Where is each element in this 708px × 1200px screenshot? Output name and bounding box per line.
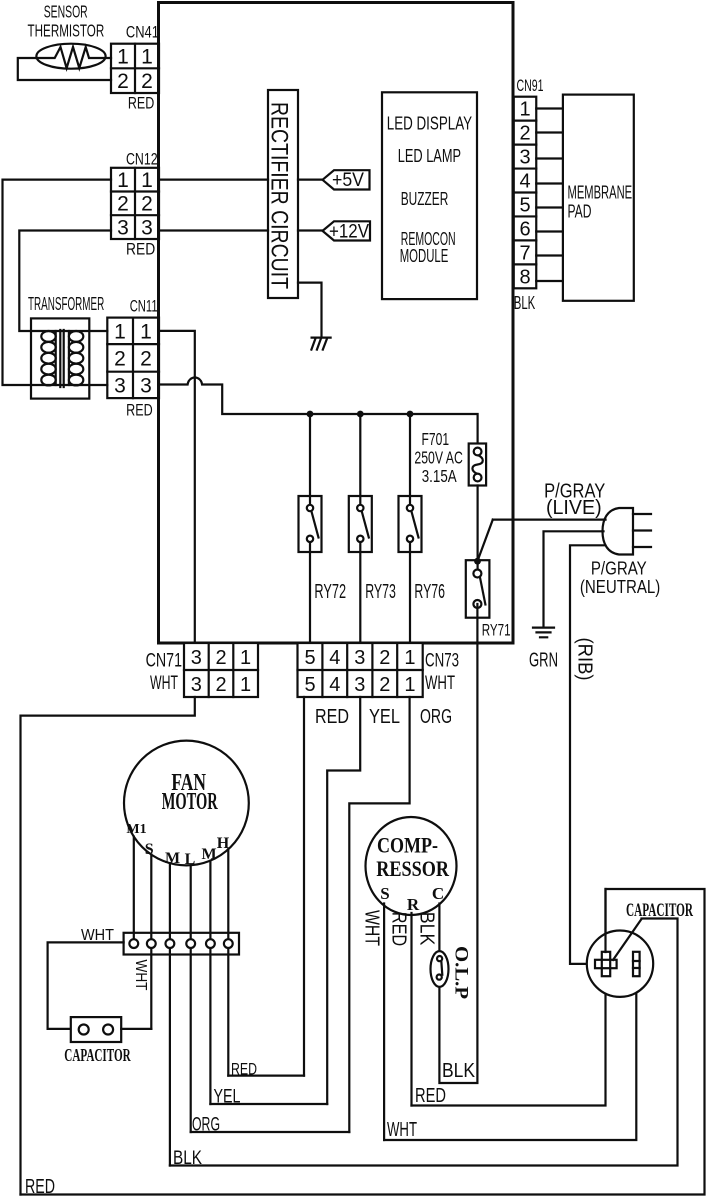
fan terminal labels M1 S M L M H <box>126 822 229 868</box>
svg-text:(NEUTRAL): (NEUTRAL) <box>580 577 660 597</box>
svg-text:WHT: WHT <box>361 910 383 946</box>
svg-text:1: 1 <box>141 46 153 69</box>
svg-text:CN41: CN41 <box>126 24 159 42</box>
svg-text:LED DISPLAY: LED DISPLAY <box>387 114 473 135</box>
svg-text:3: 3 <box>114 374 126 397</box>
svg-text:COMP-: COMP- <box>377 832 438 857</box>
svg-text:GRN: GRN <box>529 649 558 671</box>
svg-text:3: 3 <box>354 674 365 696</box>
wire rectifier to +5V flag <box>298 179 323 181</box>
earth ground symbol GRN <box>533 628 554 638</box>
svg-text:7: 7 <box>519 242 530 264</box>
svg-text:1: 1 <box>404 674 415 696</box>
connector CN11 <box>107 318 159 399</box>
svg-text:+5V: +5V <box>332 170 364 191</box>
svg-text:RED: RED <box>25 1176 55 1198</box>
svg-text:WHT: WHT <box>387 1119 417 1141</box>
svg-text:WHT: WHT <box>81 927 114 944</box>
wire YEL line <box>210 1103 327 1105</box>
svg-text:BLK: BLK <box>514 293 536 313</box>
relay RY76 <box>399 414 422 643</box>
CN73 pin numbers <box>304 647 415 696</box>
svg-text:CN91: CN91 <box>517 76 544 95</box>
svg-text:CN11: CN11 <box>130 298 158 316</box>
membrane pad block <box>563 95 634 301</box>
svg-text:MODULE: MODULE <box>400 246 449 267</box>
compressor terminal labels S R C <box>380 884 444 914</box>
wire CN71 pin3 down left side to bottom <box>21 697 195 1195</box>
wire CN73 pin1 down jog <box>349 697 409 1132</box>
wires CN91 to membrane pad <box>536 109 563 282</box>
svg-text:5: 5 <box>519 194 530 216</box>
fan motor lead wires <box>134 837 229 1166</box>
svg-text:2: 2 <box>141 193 153 216</box>
svg-text:2: 2 <box>117 70 129 93</box>
svg-text:RY76: RY76 <box>414 581 445 603</box>
wire plug third pin to capacitor (RIB) <box>570 545 605 964</box>
svg-text:YEL: YEL <box>214 1087 241 1108</box>
svg-text:3: 3 <box>354 647 365 669</box>
node +5V output flag <box>323 170 370 189</box>
svg-text:3: 3 <box>117 217 129 240</box>
junction dot RY73 tap <box>357 411 364 418</box>
wire compressor R to run capacitor (RED) <box>412 976 606 1106</box>
svg-text:RED: RED <box>126 240 155 258</box>
svg-text:1: 1 <box>140 320 152 343</box>
svg-text:4: 4 <box>329 647 340 669</box>
wire CN12 pin1 to rectifier <box>159 179 268 181</box>
svg-text:CN73: CN73 <box>425 650 459 671</box>
svg-text:RED: RED <box>126 401 153 419</box>
svg-text:RED: RED <box>128 95 154 113</box>
wire CN73 pin3 down jog <box>327 697 360 1104</box>
svg-text:YEL: YEL <box>369 706 400 728</box>
svg-text:2: 2 <box>117 193 129 216</box>
svg-text:1: 1 <box>117 169 129 192</box>
svg-text:(LIVE): (LIVE) <box>546 497 602 519</box>
fuse F701 <box>469 444 486 486</box>
svg-text:6: 6 <box>519 218 530 240</box>
transformer primary winding <box>41 331 55 385</box>
svg-text:SENSOR: SENSOR <box>44 2 88 22</box>
capacitor diagonal pointer <box>613 919 642 960</box>
svg-text:F701: F701 <box>422 429 450 449</box>
svg-text:RESSOR: RESSOR <box>376 856 450 881</box>
strip terminal circles <box>129 939 232 948</box>
wire plug live <box>493 518 606 520</box>
CN71 pin numbers <box>191 647 251 696</box>
power plug body <box>603 508 634 555</box>
wire compressor S <box>383 904 385 1141</box>
svg-text:3: 3 <box>141 217 153 240</box>
svg-text:BLK: BLK <box>173 1148 202 1169</box>
thermistor zigzag element <box>36 47 111 68</box>
CN12 pin numbers <box>117 169 153 240</box>
svg-text:2: 2 <box>140 347 152 370</box>
svg-text:P/GRAY: P/GRAY <box>591 558 647 578</box>
connector CN41 <box>111 44 159 93</box>
label F701 250V AC 3.15A <box>414 429 462 486</box>
transformer secondary winding <box>69 331 83 385</box>
wire fuse to RY71 <box>477 486 479 574</box>
wire CN12 pin3 to transformer top winding <box>19 231 111 332</box>
wire rectifier to signal ground <box>298 283 322 337</box>
svg-text:2: 2 <box>379 674 390 696</box>
main control box <box>159 3 514 644</box>
plug prongs <box>633 514 651 547</box>
svg-text:PAD: PAD <box>568 201 592 222</box>
svg-text:S: S <box>380 884 389 903</box>
signal ground symbol <box>311 338 330 350</box>
svg-text:RY72: RY72 <box>314 581 346 603</box>
capacitor C2 cross terminal <box>595 952 617 976</box>
CN11 pin numbers <box>114 320 152 397</box>
svg-text:2: 2 <box>215 674 226 696</box>
svg-text:RY73: RY73 <box>365 581 396 603</box>
relay RY72 <box>299 414 322 643</box>
svg-text:1: 1 <box>404 647 415 669</box>
svg-text:1: 1 <box>141 169 153 192</box>
fan terminal strip <box>124 933 239 955</box>
wire strip to left capacitor <box>48 942 124 1029</box>
transformer T1 box <box>31 318 89 398</box>
label SENSOR THERMISTOR <box>28 2 105 41</box>
svg-text:M: M <box>165 850 180 867</box>
svg-text:2: 2 <box>141 70 153 93</box>
svg-text:WHT: WHT <box>425 673 455 694</box>
wire bottom RED line to right riser <box>21 889 705 1195</box>
svg-text:TRANSFORMER: TRANSFORMER <box>28 294 104 314</box>
label P/GRAY (LIVE) <box>544 481 605 519</box>
svg-text:2: 2 <box>519 123 530 145</box>
junction dot RY72 tap <box>307 411 314 418</box>
svg-text:CN71: CN71 <box>146 650 182 671</box>
capacitor C1 (fan) <box>71 1017 121 1042</box>
rectifier circuit block U2 <box>268 90 298 298</box>
label COMPRESSOR <box>376 832 450 881</box>
label FAN MOTOR <box>162 770 218 815</box>
wire CN11 pin3 to AC bus with hop over vertical wire <box>159 378 478 444</box>
svg-text:3: 3 <box>191 674 202 696</box>
svg-text:RED: RED <box>231 1060 257 1079</box>
svg-text:ORG: ORG <box>192 1115 220 1136</box>
svg-text:MOTOR: MOTOR <box>162 789 218 815</box>
wire live diagonal from plug to RY71 <box>477 520 492 562</box>
svg-text:C: C <box>432 884 444 903</box>
wire plug neutral to earth <box>544 531 604 626</box>
compressor motor body <box>366 817 457 915</box>
capacitor C2 right terminal <box>633 952 640 976</box>
wire compressor S to run capacitor (WHT) <box>384 977 636 1140</box>
svg-text:250V AC: 250V AC <box>414 447 462 467</box>
wire rectifier to +12V flag <box>298 229 323 231</box>
svg-text:4: 4 <box>329 674 340 696</box>
svg-text:5: 5 <box>304 674 315 696</box>
connector CN73 <box>298 643 423 697</box>
svg-text:ORG: ORG <box>420 706 452 728</box>
svg-text:BLK: BLK <box>416 912 438 946</box>
display module block U3 <box>382 92 477 299</box>
svg-text:2: 2 <box>379 647 390 669</box>
node +12V output flag <box>323 221 371 240</box>
relay RY73 <box>349 414 372 643</box>
svg-text:M1: M1 <box>126 822 146 837</box>
svg-text:BLK: BLK <box>442 1060 476 1082</box>
transformer core <box>60 330 63 387</box>
svg-text:WHT: WHT <box>150 673 178 694</box>
svg-text:8: 8 <box>519 266 530 288</box>
svg-text:CN12: CN12 <box>126 151 158 169</box>
svg-text:1: 1 <box>117 46 129 69</box>
svg-text:RED: RED <box>388 912 410 946</box>
connector CN91 <box>514 97 537 289</box>
label MEMBRANE PAD <box>568 182 633 222</box>
svg-text:MEMBRANE: MEMBRANE <box>568 182 633 203</box>
wire compressor C to O.L.P <box>438 904 440 952</box>
svg-text:(RIB): (RIB) <box>574 638 596 681</box>
svg-text:RECTIFIER CIRCUIT: RECTIFIER CIRCUIT <box>266 102 293 289</box>
overload protector O.L.P <box>431 951 449 987</box>
svg-text:RED: RED <box>415 1085 446 1107</box>
wire CN12 pin1 to transformer bottom winding <box>3 180 112 385</box>
wire CN73 pin5 down <box>303 697 305 1076</box>
svg-text:BUZZER: BUZZER <box>401 189 449 210</box>
wire ORG line <box>191 1131 350 1133</box>
svg-text:3: 3 <box>191 647 202 669</box>
svg-text:2: 2 <box>215 647 226 669</box>
connector CN12 <box>111 168 159 239</box>
svg-text:3: 3 <box>519 147 530 169</box>
svg-text:+12V: +12V <box>329 221 369 242</box>
svg-text:M: M <box>201 846 216 863</box>
svg-text:CAPACITOR: CAPACITOR <box>64 1045 131 1065</box>
svg-text:4: 4 <box>519 171 530 193</box>
CN41 pin numbers <box>117 46 153 94</box>
svg-text:1: 1 <box>114 320 126 343</box>
CN91 pin numbers 1-8 <box>519 99 530 289</box>
svg-text:RED: RED <box>315 706 349 728</box>
svg-text:5: 5 <box>304 647 315 669</box>
relay RY71 <box>466 560 490 618</box>
wire CN11 pin1 down to CN71 pin3 <box>159 331 195 643</box>
svg-text:RY71: RY71 <box>482 621 511 639</box>
svg-text:1: 1 <box>519 99 530 121</box>
wire CN12 pin3 to rectifier <box>159 229 268 231</box>
svg-text:LED LAMP: LED LAMP <box>398 146 461 167</box>
connector CN71 <box>184 643 258 697</box>
junction dot RY76 tap <box>407 411 414 418</box>
svg-text:THERMISTOR: THERMISTOR <box>28 20 105 40</box>
label P/GRAY (NEUTRAL) <box>580 558 660 597</box>
svg-text:1: 1 <box>240 674 251 696</box>
fan motor M1 body <box>124 741 249 866</box>
wire thermistor left terminal to CN41 pin2 <box>18 58 111 80</box>
wire RY71 through O.L.P loop to compressor C <box>439 604 477 1083</box>
thermistor RT1 body <box>36 44 105 69</box>
svg-text:WHT: WHT <box>132 960 149 991</box>
svg-text:CAPACITOR: CAPACITOR <box>626 900 693 921</box>
svg-text:3: 3 <box>140 374 152 397</box>
svg-text:3.15A: 3.15A <box>422 466 457 486</box>
wire compressor R <box>410 913 412 1106</box>
wire fan BLK line to capacitor <box>170 919 678 1166</box>
wire RED line (fan H to CN73 pin5) <box>228 1074 304 1076</box>
wire capacitor C1 to strip terminal 2 <box>121 1028 151 1030</box>
svg-text:2: 2 <box>114 347 126 370</box>
svg-text:O.L.P: O.L.P <box>451 946 471 999</box>
svg-text:1: 1 <box>240 647 251 669</box>
run capacitor C2 body <box>587 931 653 997</box>
junction dot RY71 top <box>474 558 481 565</box>
wire riser into capacitor cross <box>604 889 606 952</box>
